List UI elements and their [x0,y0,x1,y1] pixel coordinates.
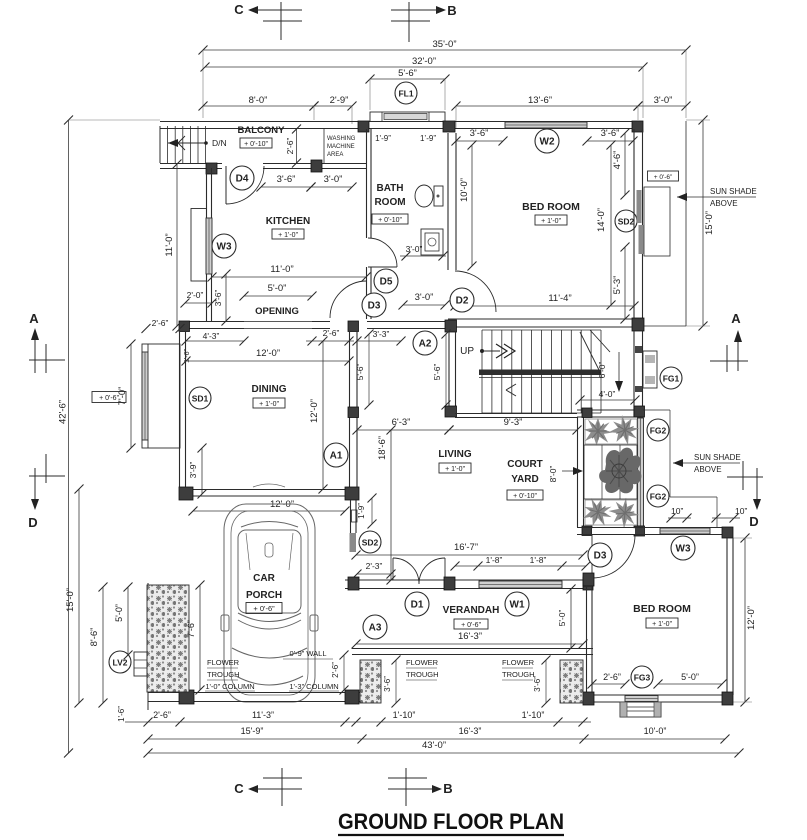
stair down chevron [506,384,516,396]
wall bath right (bedroom left) [448,133,456,270]
column balcony right end [311,160,322,172]
wall stair right [634,330,643,417]
dim 10" right [712,506,748,523]
column court bottom-left [582,526,592,536]
svg-text:PORCH: PORCH [246,590,282,601]
svg-text:+ 0'-6”: + 0'-6” [253,604,275,613]
svg-text:TROUGH: TROUGH [207,670,240,679]
dim 2'-6" balcony pier [285,125,301,168]
svg-text:FLOWER: FLOWER [406,658,439,667]
column bedroom2 SE [722,692,733,705]
svg-text:3'-6”: 3'-6” [277,174,296,185]
svg-text:5'-0”: 5'-0” [681,672,699,682]
svg-text:2'-0”: 2'-0” [187,290,204,300]
label LV2 [109,651,131,673]
dim 16'-7" [352,542,588,560]
svg-text:16'-3”: 16'-3” [459,726,482,736]
svg-text:COURT: COURT [507,459,543,470]
window FG3 [625,696,658,702]
wall verandah top [345,580,593,589]
svg-text:3'-6”: 3'-6” [383,676,392,692]
wall dining right [350,332,358,487]
svg-text:GROUND FLOOR PLAN: GROUND FLOOR PLAN [338,809,564,834]
door D2 wall gap [0,0,1,1]
svg-text:OPENING: OPENING [255,306,299,317]
sun shade note (top right) [677,187,757,208]
svg-text:3'-0”: 3'-0” [406,244,423,254]
window label W1 [505,592,529,616]
dim 3'-6" rot trough R [533,656,551,708]
label LIVING [438,449,472,473]
section marker C (top) [234,2,302,40]
svg-text:TROUGH: TROUGH [502,670,535,679]
dim row B bottom [144,726,730,744]
svg-text:BALCONY: BALCONY [238,125,286,136]
svg-text:C: C [234,2,244,17]
label VERANDAH [443,605,500,629]
dim row A bottom [125,710,591,727]
dim 32'-0" (top) [201,56,648,118]
svg-text:+ 0'-6”: + 0'-6” [461,622,481,629]
dim 6'-0" rot stair [597,361,607,378]
dim 3'-0" D2 [399,292,450,310]
svg-text:2'-3”: 2'-3” [366,561,383,571]
label BATH ROOM [372,183,408,224]
dim 4'-3" [182,331,249,346]
dim 1'-6" rot bottom-left [117,706,126,722]
dim 12'-0" porch [189,499,350,516]
wall porch-living (SD2 wall) [351,500,358,533]
svg-text:5'-3”: 5'-3” [612,276,623,295]
wall bedroom2 left [587,587,593,695]
svg-text:WASHING: WASHING [327,136,356,142]
column top wall NE corner [632,121,643,132]
svg-text:+ 0'-10”: + 0'-10” [513,493,537,500]
svg-text:ABOVE: ABOVE [710,199,738,208]
svg-text:4'-3”: 4'-3” [203,331,220,341]
svg-text:W2: W2 [540,137,555,148]
svg-text:11'-0”: 11'-0” [270,264,293,275]
court middle box [584,445,637,499]
column balcony-kitchen joint [206,163,217,174]
door label D5 [374,269,398,293]
stair arrow right flight [615,352,623,392]
column H3 x353 [348,321,359,332]
dim 16'-3" above wall [352,631,588,649]
sun shade outline (top right) [643,121,686,326]
svg-text:D1: D1 [411,600,424,611]
svg-text:1'-0” COLUMN: 1'-0” COLUMN [205,682,254,691]
svg-text:5'-6”: 5'-6” [398,68,417,79]
svg-text:7'-0”: 7'-0” [117,387,128,406]
wall court top [577,410,643,417]
dim 3'-6" rot trough L [383,656,401,708]
window W2 (top wall) [505,122,587,128]
svg-text:18'-6”: 18'-6” [377,436,388,460]
door D5 arc [368,238,397,267]
wall dining left [180,331,186,489]
column bedroom2 NE [722,527,733,538]
svg-text:FG2: FG2 [650,426,667,436]
svg-text:ABOVE: ABOVE [694,465,722,474]
door label SD2 (porch) [359,531,381,553]
dim 5'-6" rot hall-left [355,330,374,410]
toilet WC [415,185,443,207]
svg-text:FG3: FG3 [634,673,651,683]
svg-text:9'-3”: 9'-3” [504,417,523,428]
svg-text:16'-7”: 16'-7” [454,542,478,553]
svg-text:W3: W3 [676,544,691,555]
section marker A (left) [29,311,65,373]
svg-text:42'-6”: 42'-6” [58,400,69,424]
svg-text:BED ROOM: BED ROOM [633,603,691,615]
section marker B (top) [391,2,457,42]
svg-text:1'-9”: 1'-9” [357,503,366,519]
window W3 (bedroom2) [660,528,710,534]
svg-text:10”: 10” [671,506,683,516]
door SD2 (porch) panel [350,533,357,552]
svg-text:13'-6”: 13'-6” [528,95,552,106]
svg-text:8'-6”: 8'-6” [89,628,100,647]
svg-text:SUN SHADE: SUN SHADE [710,187,757,196]
text 1'-3" column [289,682,339,691]
svg-text:3'-6”: 3'-6” [533,676,542,692]
svg-text:CAR: CAR [253,573,275,584]
label BED ROOM (bottom) [633,603,691,628]
car (top view) [221,484,318,702]
svg-text:10'-0”: 10'-0” [459,178,470,202]
svg-text:2'-6”: 2'-6” [323,328,340,338]
dim 18'-6" rot [377,426,396,585]
svg-text:+ 0'-6”: + 0'-6” [654,174,672,181]
svg-text:+ 1'-0”: + 1'-0” [259,401,279,408]
svg-text:5'-0”: 5'-0” [268,283,287,294]
column verandah x350 [348,577,359,590]
column H3 x450 [445,320,457,332]
window label FG1 [660,367,682,389]
column dining-right mid [348,407,359,418]
window FL1 projection [370,112,445,122]
svg-text:0'-9” WALL: 0'-9” WALL [290,649,327,658]
section marker B (bottom) [388,768,453,806]
label KITCHEN [266,216,310,239]
window W1 [479,581,562,588]
svg-text:1'-10”: 1'-10” [393,710,416,720]
svg-text:A1: A1 [330,451,343,462]
dim 2'-6" hall [306,328,354,346]
window label FG3 [631,666,653,688]
svg-text:KITCHEN: KITCHEN [266,216,310,227]
svg-text:32'-0”: 32'-0” [412,56,436,67]
svg-text:4'-0”: 4'-0” [599,389,616,399]
svg-text:15'-9”: 15'-9” [241,726,264,736]
dim 1'-8" pair [451,555,591,571]
dim 5'-0" bedroom2 [654,672,727,689]
column porch SW [179,690,194,704]
dim 11'-4" [451,293,639,311]
section marker A (right) [710,311,748,372]
dim 2'-3" porch [353,561,396,579]
dim 15'-0" (right) [686,116,715,331]
dim 5'-3" rot bedroom [612,243,630,324]
svg-text:1'-10”: 1'-10” [522,710,545,720]
svg-text:VERANDAH: VERANDAH [443,605,500,616]
dim 7'-0" rot bay [117,340,136,453]
wall bedroom right [634,129,643,318]
court planter bottom [580,494,644,534]
wall verandah bottom [352,649,593,655]
svg-text:SD2: SD2 [618,217,635,227]
dim 14'-0" rot bedroom [596,141,616,310]
dim 10" left [667,506,692,523]
wall car porch top [186,490,352,497]
svg-text:D3: D3 [368,301,381,312]
dim 1'-6" rot small [184,348,191,362]
text flower trough (verandah L) [406,658,439,680]
svg-text:1'-3” COLUMN: 1'-3” COLUMN [289,682,338,691]
dim 8'-0" rot court [548,465,583,482]
svg-text:1'-8”: 1'-8” [486,555,503,565]
balcony stair treads (D/N) [160,126,206,163]
svg-text:3'-9”: 3'-9” [188,461,198,478]
dim 3'-6" rot below W3 [213,270,231,326]
svg-text:FG2: FG2 [650,492,667,502]
svg-text:12'-0”: 12'-0” [309,399,320,423]
column porch NW [179,487,193,500]
svg-text:W1: W1 [510,600,525,611]
dim 1'-9" bath piers [375,134,436,143]
svg-text:3'-6”: 3'-6” [470,128,489,139]
svg-text:UP: UP [460,346,474,357]
wall stair left [449,332,456,414]
door label SD1 [189,387,211,409]
wall balcony bottom / kitchen top [160,164,366,169]
svg-text:2'-6”: 2'-6” [285,137,295,154]
washing machine area [324,129,356,163]
dim 15'-0" rot porch [65,485,84,708]
svg-text:12'-0”: 12'-0” [256,348,280,359]
dim 2'-0" kitchen-dining [181,290,217,308]
wall bedroom2 top (court bottom) [577,528,733,535]
svg-text:8'-0”: 8'-0” [249,95,268,106]
title GROUND FLOOR PLAN [338,809,564,835]
svg-text:5'-6”: 5'-6” [432,363,442,380]
step below FG3 [620,702,661,717]
dim 2'-6" rot porch right [331,651,349,695]
svg-text:TROUGH: TROUGH [406,670,439,679]
balcony label [238,125,286,148]
column court top-left [582,408,592,418]
dim 3'-6" kitchen top [257,174,316,192]
column H3 dining-left [179,321,190,332]
svg-text:3'-0”: 3'-0” [654,95,673,106]
stair rail band [479,370,601,378]
column verandah x588 [583,577,593,590]
dim 2'-6" bedroom2 [588,672,630,689]
svg-text:1'-9”: 1'-9” [375,134,391,143]
svg-text:11'-0”: 11'-0” [164,233,175,256]
svg-text:D5: D5 [380,277,393,288]
svg-text:B: B [443,781,452,796]
svg-text:FLOWER: FLOWER [502,658,535,667]
svg-text:+ 1'-0”: + 1'-0” [652,621,672,628]
svg-text:4'-6”: 4'-6” [612,151,623,170]
dim 43'-0" [144,740,744,758]
grid label A3 [363,615,387,639]
window W3 bay (kitchen) [191,209,212,282]
wall top (balcony/bedroom) [160,122,643,129]
stair break line [580,330,610,372]
stair right wall dark bits [635,346,642,392]
svg-text:2'-6”: 2'-6” [152,318,169,328]
flower trough verandah-left [360,660,381,703]
dim 9'-3" [445,417,582,435]
svg-text:BED ROOM: BED ROOM [522,201,580,213]
court tree [599,448,641,494]
svg-text:BATH: BATH [376,183,403,194]
svg-text:YARD: YARD [511,474,538,485]
wall bedroom bottom H3-right [448,319,642,327]
svg-text:6'-0”: 6'-0” [597,361,607,378]
window label W3 (bedroom2) [671,536,695,560]
sun shade note (court) [673,453,741,474]
dim 3'-6" bedroom left [452,128,508,146]
window FG1 [643,351,657,388]
wall porch bottom [148,693,360,702]
dim 3'-0" kitchen top [307,174,357,192]
dim 3'-0" bath [400,244,448,261]
dim 5'-0" rot verandah [557,585,576,653]
door label D3 (bedroom2) [588,543,612,567]
svg-text:D: D [28,515,37,530]
svg-text:B: B [447,3,456,18]
grid label A1 [324,443,348,467]
svg-text:MACHINE: MACHINE [327,144,355,150]
wall bedroom2 right [727,538,733,695]
svg-text:35'-0”: 35'-0” [433,39,457,50]
bay window SD1 [142,344,180,448]
svg-text:+ 1'-0”: + 1'-0” [445,466,465,473]
text 0'-9" wall [283,649,333,659]
label COURT YARD [507,459,543,500]
svg-text:+ 0'-10”: + 0'-10” [378,217,402,224]
text 1'-0" column [205,682,255,691]
svg-text:3'-3”: 3'-3” [373,329,390,339]
wall porch outer left [147,583,149,710]
column porch NE [345,487,359,500]
svg-text:A2: A2 [419,339,432,350]
dim 5'-6" rot hall-right [432,330,451,410]
dim 11'-0" kitchen [208,264,371,282]
wall stair bottom [455,414,577,418]
svg-text:5'-0”: 5'-0” [557,609,567,626]
column bedroom2 SW [583,692,594,705]
svg-text:1’-9”: 1’-9” [420,134,436,143]
wall court left [578,417,584,527]
svg-text:11'-4”: 11'-4” [548,293,571,304]
dim 4'-6" rot bedroom [612,129,630,200]
svg-text:15'-0”: 15'-0” [65,588,76,612]
dim 7'-6" rot porch [186,581,205,695]
door label D2 [450,288,474,312]
svg-text:D3: D3 [594,551,607,562]
stair treads [482,330,601,413]
section marker D (right) [727,461,763,529]
label BED ROOM (top) [522,201,580,225]
window label W3 (kitchen) [212,234,236,258]
svg-text:2'-6”: 2'-6” [153,710,171,720]
svg-text:FLOWER: FLOWER [207,658,240,667]
window label FG2 (bottom) [647,485,669,507]
label DINING [252,384,287,408]
svg-text:15'-0”: 15'-0” [704,211,715,235]
svg-text:1'-8”: 1'-8” [530,555,547,565]
dim 3'-6" bedroom right [583,128,638,146]
svg-text:A: A [731,311,741,326]
window label FG2 (top) [647,419,669,441]
double door D1 [393,558,445,588]
svg-text:5'-0”: 5'-0” [114,604,124,622]
dim 12'-0" rot dining [309,337,328,494]
opening 5'-0" [240,283,317,329]
svg-text:+ 0'-10”: + 0'-10” [244,141,268,148]
balcony D/N arrow [168,136,227,150]
column verandah x450 [444,577,455,590]
svg-text:2'-9”: 2'-9” [330,95,349,106]
svg-text:+ 1'-0”: + 1'-0” [278,232,298,239]
svg-text:3'-6”: 3'-6” [601,128,620,139]
sun shade outline (court) [643,410,717,527]
door label D1 [405,592,429,616]
svg-text:8'-0”: 8'-0” [548,465,558,482]
svg-text:LV2: LV2 [113,658,128,668]
column court top-right [634,406,645,417]
svg-text:14'-0”: 14'-0” [596,208,607,232]
svg-text:7'-6”: 7'-6” [186,620,196,638]
dim 5'-6" (top, FL1) [366,68,450,110]
section marker C (bottom) [234,768,302,806]
dim 11'-0" left rot [164,160,182,331]
door label D3 [362,293,386,317]
column porch SE [345,690,359,704]
svg-text:2'-6”: 2'-6” [603,672,621,682]
column top wall left of bath [358,121,369,132]
column bedroom2 NW [583,573,594,586]
court glazing FG2 [638,418,644,526]
door label D4 [230,166,254,190]
svg-text:D: D [749,514,758,529]
label CAR PORCH [246,573,282,614]
svg-text:FL1: FL1 [398,89,413,99]
svg-text:16'-3”: 16'-3” [458,631,482,642]
svg-text:DINING: DINING [252,384,287,395]
svg-text:ROOM: ROOM [374,197,405,208]
dim 10'-0" rot bedroom [459,141,477,271]
svg-text:A: A [29,311,39,326]
dim 5'-0" rot porch [114,583,133,660]
svg-text:AREA: AREA [327,152,343,158]
vent LV2 box [134,652,147,676]
svg-text:1'-6”: 1'-6” [117,706,126,722]
svg-text:11'-3”: 11'-3” [252,710,274,720]
dim 12'-0" dining [182,348,354,366]
svg-text:10'-0”: 10'-0” [644,726,667,736]
svg-text:SD2: SD2 [362,538,379,548]
svg-text:+ 1'-0”: + 1'-0” [541,218,561,225]
svg-text:W3: W3 [217,242,232,253]
section marker D (left) [28,454,65,530]
column stair bottom-left [445,406,457,417]
